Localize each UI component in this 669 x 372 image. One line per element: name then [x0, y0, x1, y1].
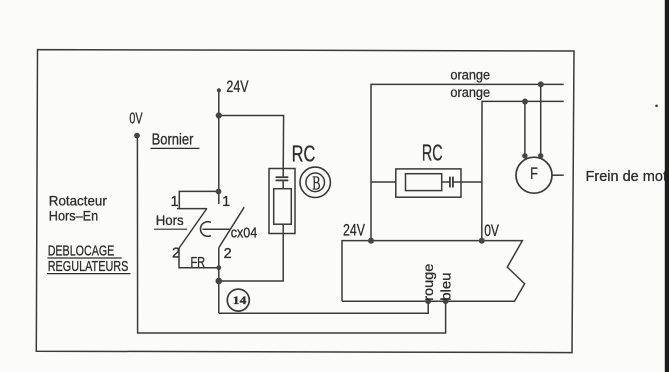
svg-text:FR: FR	[191, 255, 206, 271]
svg-text:24V: 24V	[226, 78, 248, 96]
svg-text:Frein de mot: Frein de mot	[586, 168, 668, 185]
svg-text:Hors–En: Hors–En	[49, 207, 98, 223]
svg-text:rouge: rouge	[421, 264, 437, 301]
svg-text:Hors: Hors	[156, 212, 184, 228]
svg-text:0V: 0V	[129, 110, 143, 127]
svg-text:2: 2	[172, 246, 180, 262]
svg-text:0V: 0V	[484, 222, 499, 240]
svg-text:F: F	[530, 165, 538, 183]
svg-text:DEBLOCAGE: DEBLOCAGE	[48, 243, 115, 260]
svg-text:REGULATEURS: REGULATEURS	[48, 258, 129, 275]
svg-text:14: 14	[233, 294, 247, 307]
svg-text:RC: RC	[292, 140, 316, 166]
svg-text:B: B	[312, 172, 320, 194]
svg-text:RC: RC	[422, 139, 443, 165]
svg-text:24V: 24V	[343, 222, 365, 240]
svg-text:cx04: cx04	[231, 226, 257, 242]
svg-text:1: 1	[222, 194, 230, 210]
svg-text:orange: orange	[450, 67, 490, 83]
svg-text:Bornier: Bornier	[152, 132, 194, 149]
svg-text:bleu: bleu	[438, 273, 454, 301]
svg-text:2: 2	[224, 246, 232, 262]
svg-text:1: 1	[171, 194, 179, 210]
svg-text:orange: orange	[450, 85, 490, 101]
svg-text:Rotacteur: Rotacteur	[49, 193, 107, 209]
